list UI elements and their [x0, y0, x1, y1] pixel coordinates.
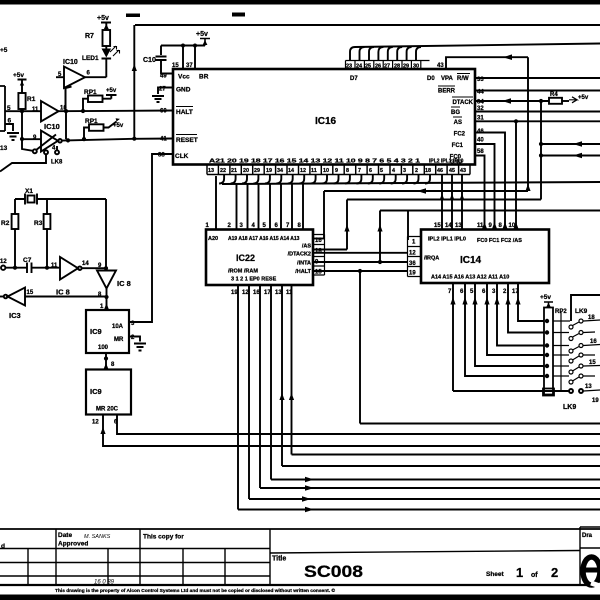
resistor pack RP2: [544, 308, 553, 395]
svg-text:IC 8: IC 8: [117, 279, 131, 288]
svg-text:+5v: +5v: [13, 72, 24, 79]
svg-text:SC008: SC008: [304, 562, 363, 581]
arrows on IPL verticals: [440, 194, 465, 201]
svg-text:11: 11: [32, 107, 39, 113]
pin cells IC14 left: [408, 237, 422, 277]
svg-text:+5v: +5v: [113, 123, 124, 129]
ground at connector pin 6: [5, 124, 19, 140]
svg-text:16: 16: [590, 339, 597, 345]
svg-text:VPA: VPA: [441, 76, 454, 82]
wire bus line 7: [260, 487, 600, 489]
ground at IC9a MR: [129, 337, 146, 351]
wire IC8a out: [82, 267, 106, 269]
svg-text:This drawing is the property o: This drawing is the property of Alcon Co…: [55, 587, 335, 594]
svg-text:5: 5: [380, 168, 383, 174]
svg-text:RESET: RESET: [176, 137, 198, 144]
svg-text:19: 19: [266, 168, 272, 174]
arrow left on DTACK: [502, 98, 511, 104]
svg-text:CLK: CLK: [175, 153, 189, 160]
arrows into IC14 bottom pins: [450, 297, 520, 305]
svg-text:/ROM /RAM: /ROM /RAM: [228, 269, 258, 275]
pin numbers bottom: [208, 168, 466, 174]
arrow left on pin43 wire: [503, 54, 512, 60]
svg-text:1: 1: [516, 565, 523, 580]
wire IC9a to IC9b: [105, 353, 107, 370]
svg-text:IC22: IC22: [236, 253, 255, 263]
wire hooks bottom to address bus rail: [219, 175, 430, 184]
wire from right edge into LK9: [571, 295, 600, 321]
svg-text:LK8: LK8: [51, 160, 63, 166]
svg-text:Approved: Approved: [58, 541, 88, 548]
node junction RESET riser: [132, 137, 136, 141]
svg-text:18: 18: [588, 315, 595, 321]
svg-text:24: 24: [356, 64, 363, 70]
svg-text:10: 10: [509, 223, 516, 229]
arrow left: [573, 141, 582, 147]
resistor RP1 a: [83, 88, 117, 111]
svg-text:15: 15: [27, 290, 34, 296]
wire tri3 input: [22, 138, 41, 140]
wire osc feedback: [105, 199, 107, 270]
wire IPL verticals to IC14: [442, 175, 462, 230]
svg-text:18: 18: [425, 168, 431, 174]
resistor R3: [34, 199, 50, 270]
svg-text:16 0 89: 16 0 89: [94, 580, 115, 586]
svg-text:9: 9: [335, 168, 338, 174]
IC16 top data pins 23-30: [346, 61, 430, 70]
wire FC2: [475, 133, 505, 230]
inverter IC3 left: [8, 288, 26, 306]
buffer IC10a: [64, 67, 85, 89]
svg-text:43: 43: [460, 168, 466, 174]
svg-text:+5v: +5v: [578, 95, 589, 101]
svg-text:of: of: [531, 572, 538, 579]
node junctions on RP2: [545, 319, 549, 323]
svg-text:13: 13: [455, 223, 462, 229]
svg-text:D0: D0: [427, 76, 435, 82]
svg-text:29: 29: [254, 168, 260, 174]
svg-text:12: 12: [300, 168, 306, 174]
arrow up into bus B: [525, 184, 530, 191]
svg-text:14: 14: [288, 168, 294, 174]
svg-text:Date: Date: [58, 532, 72, 539]
IC16 bottom pin strip: [207, 165, 470, 175]
svg-text:3 1 2 1 EP0 RESE: 3 1 2 1 EP0 RESE: [231, 277, 277, 283]
svg-text:FC0 FC1 FC2 /AS: FC0 FC1 FC2 /AS: [477, 238, 522, 244]
wire bus line 9: [238, 509, 600, 511]
bus rail A: [222, 182, 600, 184]
svg-text:FC1: FC1: [452, 143, 464, 149]
crystal X1: [15, 188, 106, 205]
svg-text:A14 A15 A16 A13 A12 A11 A10: A14 A15 A16 A13 A12 A11 A10: [431, 275, 509, 281]
svg-text:MR: MR: [114, 337, 124, 343]
svg-text:LK9: LK9: [563, 404, 576, 411]
svg-text:HALT: HALT: [176, 109, 193, 116]
svg-text:19: 19: [409, 271, 416, 277]
power +5v R1: [13, 72, 27, 93]
svg-text:R2: R2: [1, 220, 10, 227]
svg-text:IC 8: IC 8: [56, 288, 70, 297]
svg-text:/HALT: /HALT: [295, 269, 311, 275]
svg-text:10: 10: [323, 168, 329, 174]
svg-text:19: 19: [592, 398, 599, 404]
wire vcc rail: [161, 46, 205, 70]
svg-text:26: 26: [375, 64, 381, 70]
svg-text:IC14: IC14: [460, 255, 482, 266]
svg-text:BR: BR: [199, 74, 209, 81]
wire DTACK: [475, 100, 549, 102]
interface adapter IC14: [421, 230, 549, 284]
svg-text:11: 11: [477, 223, 484, 229]
wire IC22 /INTA to IC14 pin36: [313, 261, 408, 263]
arrows into IC14 top: [482, 222, 518, 229]
svg-text:11: 11: [51, 263, 58, 269]
svg-text:46: 46: [437, 168, 443, 174]
svg-text:IC10: IC10: [63, 59, 78, 66]
svg-text:/IRQA: /IRQA: [424, 256, 439, 262]
wire AS: [475, 120, 600, 122]
svg-text:IC10: IC10: [44, 122, 60, 131]
wire link: [65, 111, 67, 139]
svg-text:IC16: IC16: [315, 116, 337, 127]
link LK8: [0, 135, 63, 172]
wire FC1: [475, 144, 495, 230]
link LK9 rows: [553, 319, 600, 384]
IC22 bottom pin numbers: [231, 290, 293, 296]
wire pin43 to E net: [446, 57, 528, 191]
wire R1 down: [21, 109, 23, 139]
svg-text:7: 7: [358, 168, 361, 174]
wire IC22 /DTACK2 to IC14 pin12: [313, 252, 408, 254]
title block frame: [0, 528, 600, 530]
wire BERR: [475, 90, 600, 92]
svg-text:2: 2: [551, 565, 558, 580]
node junction INTA: [378, 260, 382, 264]
wire bus line 5: [282, 465, 600, 467]
connector edge left: [0, 86, 5, 131]
svg-text:20: 20: [243, 168, 249, 174]
svg-text:This copy for: This copy for: [143, 534, 184, 541]
noise dash: [232, 13, 245, 17]
svg-text:Dra: Dra: [582, 533, 593, 539]
node junction AS to IC14: [514, 119, 518, 123]
svg-text:A19 A18 A17 A16 A15 A14 A13: A19 A18 A17 A16 A15 A14 A13: [228, 236, 300, 242]
wire top rail to RESET: [134, 25, 600, 139]
svg-text:27: 27: [384, 64, 390, 70]
IC22 top pin numbers: [206, 223, 302, 229]
svg-text:d: d: [1, 543, 5, 550]
svg-text:13: 13: [585, 384, 592, 390]
svg-text:BERR: BERR: [438, 89, 456, 95]
wire IC22 /AS up to bus B2: [313, 249, 347, 251]
wire IC22 /HALT to IC14 pin19 and bus: [313, 271, 408, 424]
svg-text:13: 13: [208, 168, 214, 174]
border top bar: [0, 0, 600, 5]
svg-text:IC9: IC9: [90, 327, 102, 336]
svg-text:+5v: +5v: [106, 88, 117, 94]
resistor R4: [549, 92, 589, 104]
noise dash: [126, 14, 140, 18]
wire IC14 pin1: [407, 211, 409, 241]
svg-text:IC3: IC3: [9, 311, 21, 320]
border bottom bar: [0, 595, 600, 600]
wire data bus line: [355, 44, 600, 48]
wire bottom LK9 row: [453, 390, 569, 392]
svg-text:43: 43: [437, 63, 444, 69]
wire bus line 1: [360, 423, 600, 425]
arrow left on bus B: [417, 188, 426, 194]
svg-text:R3: R3: [34, 220, 43, 227]
inverter IC8b down: [97, 271, 116, 289]
node junction: [193, 44, 197, 48]
svg-text:22: 22: [220, 168, 226, 174]
op-amp/CPU IC16: [173, 69, 475, 165]
node junction: [181, 44, 185, 48]
svg-text:LED1: LED1: [82, 55, 99, 62]
svg-text:4: 4: [392, 168, 395, 174]
buffer IC10b: [41, 101, 59, 122]
wire IC10a out to LED: [85, 76, 106, 78]
svg-text:FC2: FC2: [454, 132, 466, 138]
svg-text:14: 14: [445, 223, 452, 229]
svg-text:/AS: /AS: [302, 244, 312, 250]
pin cells IC22 right: [313, 235, 325, 276]
arrow up on AS riser: [344, 225, 349, 232]
svg-text:15: 15: [589, 360, 596, 366]
node junction: [539, 142, 543, 146]
wire address verticals to IC22: [216, 176, 303, 230]
svg-text:25: 25: [365, 64, 371, 70]
svg-text:GND: GND: [176, 87, 191, 94]
svg-text:MR 20C: MR 20C: [96, 407, 119, 413]
svg-text:14: 14: [82, 261, 89, 267]
svg-text:13: 13: [0, 145, 8, 152]
svg-text:R7: R7: [85, 33, 94, 40]
svg-text:28: 28: [394, 64, 400, 70]
node junction: [539, 153, 543, 157]
wire bus line 6: [271, 479, 600, 481]
svg-text:DTACK: DTACK: [452, 100, 473, 106]
svg-text:/INTA: /INTA: [297, 261, 311, 267]
svg-text:12: 12: [92, 420, 99, 426]
svg-text:3: 3: [403, 168, 406, 174]
svg-text:30: 30: [413, 64, 419, 70]
wire IC14 bottom pins to RP2 rows: [453, 283, 544, 391]
wire IC22 pin16 up to bus B: [313, 238, 324, 240]
wire IC8b out down to IC9: [106, 289, 108, 311]
wire IC3 to clock node: [25, 296, 107, 298]
svg-text:12: 12: [0, 259, 7, 265]
svg-text:29: 29: [403, 64, 409, 70]
power +5v top (near C10): [196, 31, 210, 46]
svg-text:Sheet: Sheet: [486, 571, 505, 578]
svg-text:AS: AS: [454, 120, 462, 126]
counter IC9a: [86, 310, 129, 353]
svg-text:+5v: +5v: [196, 31, 208, 38]
resistor R1: [18, 93, 25, 109]
resistor R7: [103, 30, 111, 46]
wire BG: [475, 111, 600, 113]
node junction DTACK: [539, 99, 543, 103]
svg-text:Vcc: Vcc: [178, 74, 190, 81]
svg-text:C10: C10: [143, 57, 156, 64]
svg-text:12: 12: [409, 251, 416, 257]
svg-text:A21 20 19 18 17 16 15 14 13 12: A21 20 19 18 17 16 15 14 13 12 11 10 9 8…: [209, 159, 420, 165]
arrow up on INTA riser: [377, 225, 382, 232]
svg-text:34: 34: [277, 168, 283, 174]
wire bus line 8: [249, 498, 600, 500]
wire R/W: [475, 77, 600, 79]
wire IC9b outputs to bus: [103, 415, 600, 447]
resistor RP1 b: [82, 118, 124, 141]
power +5v for RP2: [540, 294, 553, 308]
resistor R2: [1, 199, 18, 270]
svg-text:40: 40: [477, 138, 484, 144]
LED LED1: [102, 46, 120, 77]
bus line B2: [347, 200, 541, 250]
buffer IC10c: [41, 131, 58, 152]
node junction HALT2: [358, 269, 362, 273]
svg-text:15: 15: [434, 223, 441, 229]
svg-text:/DTACK2: /DTACK2: [288, 252, 311, 258]
svg-text:R/W: R/W: [457, 76, 469, 82]
wire FC0: [475, 156, 485, 230]
capacitor C7: [0, 257, 60, 273]
svg-text:21: 21: [231, 168, 237, 174]
logo e: [583, 557, 600, 586]
svg-text:11: 11: [311, 168, 317, 174]
svg-text:2: 2: [415, 168, 418, 174]
svg-text:IPL2 IPL1 IPL0: IPL2 IPL1 IPL0: [429, 159, 464, 165]
inverter IC8a: [60, 257, 78, 280]
svg-text:23: 23: [346, 64, 352, 70]
wire IC10c out to RESET: [62, 139, 173, 141]
svg-text:6: 6: [369, 168, 372, 174]
svg-text:49: 49: [160, 74, 167, 80]
svg-text:BG: BG: [451, 110, 460, 116]
svg-text:100: 100: [98, 345, 109, 351]
svg-text:LK9: LK9: [575, 308, 588, 315]
ground at pin 27: [152, 88, 173, 103]
svg-text:10A: 10A: [112, 324, 124, 330]
wire bus line 4: [292, 454, 600, 456]
wire input to IC10b: [5, 110, 41, 112]
svg-text:+5: +5: [0, 47, 8, 54]
svg-text:M. SANKS: M. SANKS: [84, 534, 111, 540]
svg-text:+5v: +5v: [540, 294, 551, 301]
wire right net 1: [541, 143, 600, 145]
svg-text:+5v: +5v: [97, 15, 109, 22]
wire data bus hooks to top bus: [350, 47, 421, 61]
svg-text:Title: Title: [272, 556, 286, 563]
power +5v LED chain: [97, 15, 111, 30]
svg-text:8: 8: [346, 168, 349, 174]
svg-text:A20: A20: [208, 236, 218, 242]
svg-text:IC9: IC9: [90, 387, 102, 396]
arrow up pin13: [279, 393, 284, 400]
wire right net 2: [541, 155, 600, 157]
counter IC9b: [86, 370, 131, 415]
decoder IC22: [206, 230, 313, 286]
svg-text:58: 58: [477, 149, 484, 155]
RP2 pin rail: [560, 312, 562, 391]
svg-text:R1: R1: [27, 96, 36, 103]
wire IC10b out to HALT: [59, 110, 174, 113]
wire DTACK riser down: [540, 101, 542, 200]
wire CLK chain from IC16: [129, 154, 173, 322]
wire IC22 bottom pin verticals: [238, 285, 292, 510]
svg-text:IPL2 IPL1 IPL0: IPL2 IPL1 IPL0: [428, 237, 466, 243]
svg-text:D7: D7: [350, 76, 358, 82]
arrow up pin11: [289, 393, 294, 400]
svg-text:45: 45: [449, 168, 455, 174]
svg-text:X1: X1: [25, 188, 33, 195]
arrow left: [573, 153, 582, 159]
capacitor C10: [143, 46, 173, 74]
IC14 bottom pin numbers: [448, 289, 519, 295]
bus line B: [324, 191, 528, 239]
wire AS down to IC14: [515, 121, 517, 229]
IC14 top pin numbers: [434, 223, 516, 229]
arrow up on reset riser: [132, 64, 137, 71]
bus line B3: [380, 211, 600, 263]
